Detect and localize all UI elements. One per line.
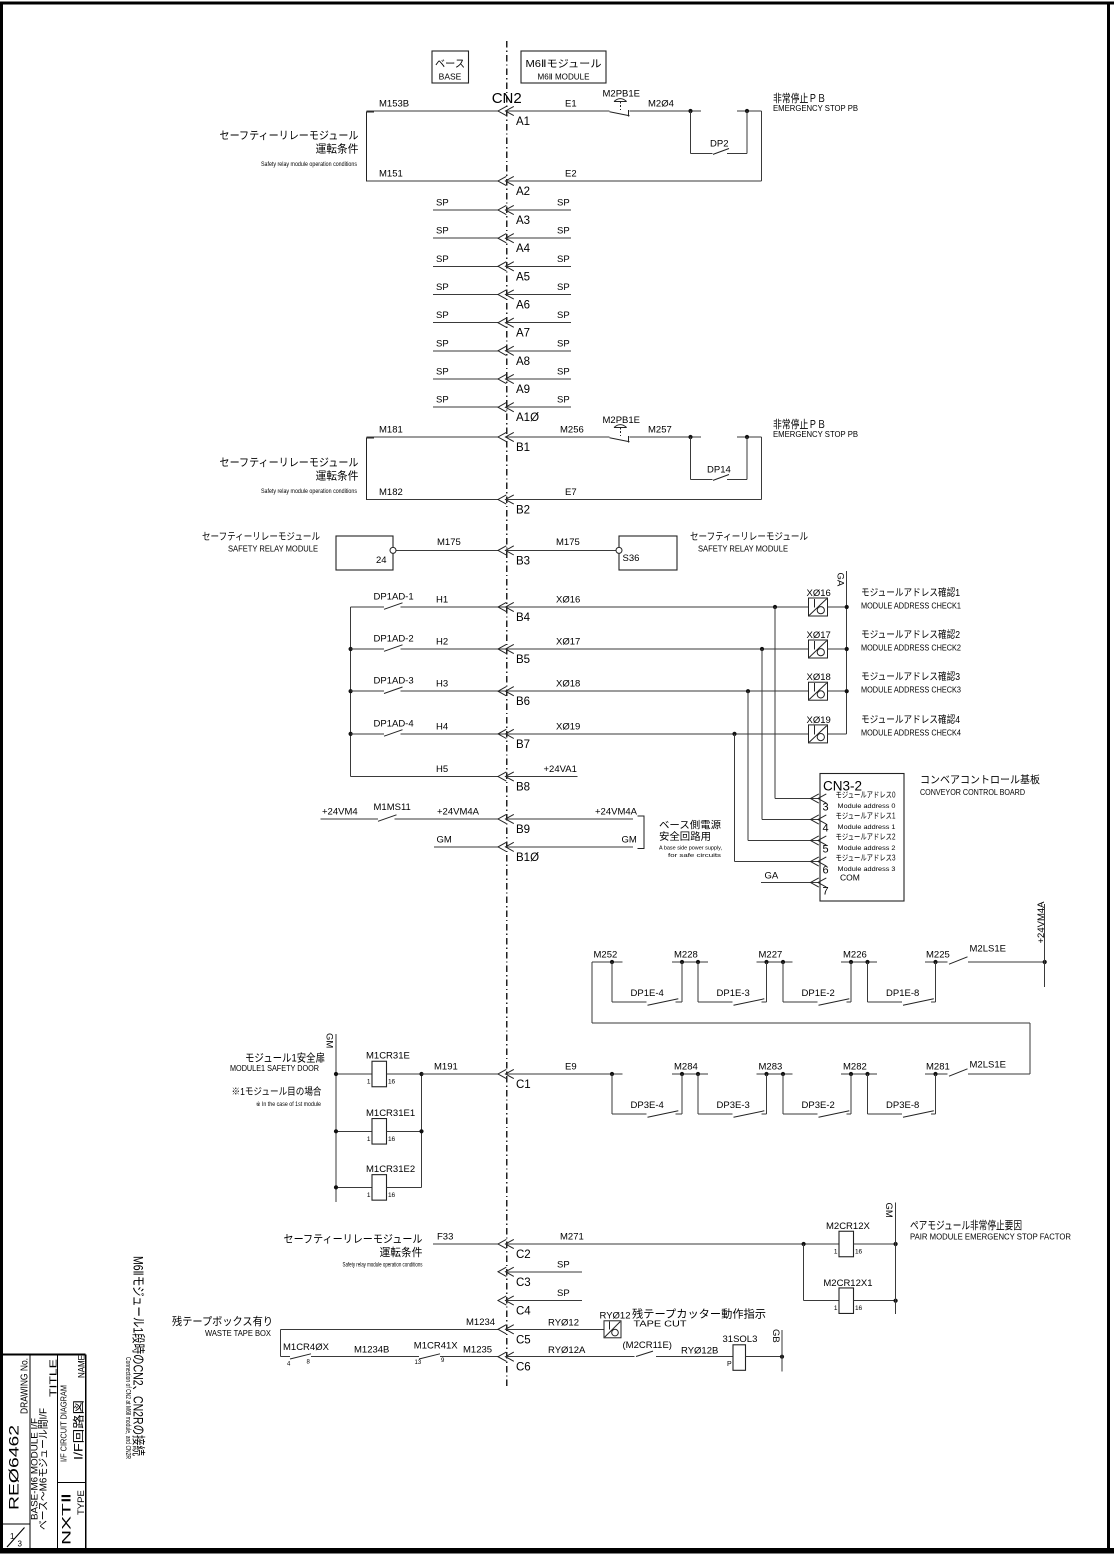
svg-text:M1CR31E: M1CR31E xyxy=(366,1051,410,1062)
svg-text:M2PB1E: M2PB1E xyxy=(603,89,641,100)
svg-text:B2: B2 xyxy=(516,505,530,517)
svg-text:M282: M282 xyxy=(843,1062,867,1073)
svg-text:SP: SP xyxy=(557,1288,570,1299)
svg-text:SP: SP xyxy=(436,395,449,406)
svg-text:Connection of CN2 at M6Ⅱ modul: Connection of CN2 at M6Ⅱ module, and CN2… xyxy=(124,1357,131,1459)
svg-text:H3: H3 xyxy=(436,679,448,690)
svg-text:13: 13 xyxy=(415,1360,422,1366)
svg-text:SP: SP xyxy=(436,367,449,378)
svg-text:XØ18: XØ18 xyxy=(807,672,831,683)
svg-text:GA: GA xyxy=(835,573,846,587)
svg-text:DP1AD-2: DP1AD-2 xyxy=(374,634,414,645)
svg-text:SP: SP xyxy=(557,395,570,406)
svg-text:P: P xyxy=(727,1361,732,1368)
svg-text:for safe circuits: for safe circuits xyxy=(668,853,721,859)
svg-text:M1CR31E2: M1CR31E2 xyxy=(366,1164,415,1175)
svg-text:A4: A4 xyxy=(516,243,531,255)
svg-text:TYPE: TYPE xyxy=(76,1490,87,1515)
svg-text:M271: M271 xyxy=(560,1232,584,1243)
svg-text:MODULE ADDRESS CHECK4: MODULE ADDRESS CHECK4 xyxy=(861,728,962,737)
svg-text:Module address 0: Module address 0 xyxy=(838,804,897,810)
svg-text:XØ19: XØ19 xyxy=(556,721,580,732)
svg-text:F33: F33 xyxy=(437,1232,453,1243)
svg-text:E1: E1 xyxy=(565,99,577,110)
svg-text:PAIR MODULE EMERGENCY STOP FAC: PAIR MODULE EMERGENCY STOP FACTOR xyxy=(910,1233,1071,1242)
svg-text:M6Ⅱ MODULE: M6Ⅱ MODULE xyxy=(538,72,590,82)
svg-text:16: 16 xyxy=(855,1249,863,1256)
svg-text:NXTⅡ: NXTⅡ xyxy=(60,1493,74,1545)
svg-text:運転条件: 運転条件 xyxy=(316,469,359,483)
svg-text:COM: COM xyxy=(840,873,860,883)
svg-text:GM: GM xyxy=(437,834,452,845)
svg-text:1: 1 xyxy=(367,1079,371,1086)
svg-text:M2CR12X1: M2CR12X1 xyxy=(823,1278,872,1289)
svg-text:M226: M226 xyxy=(843,950,867,961)
svg-text:1: 1 xyxy=(10,1532,15,1541)
svg-text:セーフティーリレーモジュール: セーフティーリレーモジュール xyxy=(220,129,359,142)
svg-text:1: 1 xyxy=(367,1192,371,1199)
svg-text:GM: GM xyxy=(324,1033,335,1048)
svg-text:I/F回路図: I/F回路図 xyxy=(72,1400,86,1460)
svg-text:H5: H5 xyxy=(436,764,448,775)
svg-text:24: 24 xyxy=(376,555,387,566)
svg-text:B1: B1 xyxy=(516,442,530,454)
svg-text:SP: SP xyxy=(436,226,449,237)
svg-text:DP3E-4: DP3E-4 xyxy=(631,1100,664,1111)
svg-text:C1: C1 xyxy=(516,1079,531,1091)
svg-text:GA: GA xyxy=(765,871,779,882)
svg-text:BASE-M6 MODULE I/F: BASE-M6 MODULE I/F xyxy=(30,1417,40,1520)
svg-text:16: 16 xyxy=(388,1136,396,1143)
svg-text:M182: M182 xyxy=(379,487,403,498)
svg-text:SP: SP xyxy=(557,254,570,265)
svg-text:M2LS1E: M2LS1E xyxy=(970,1059,1006,1070)
svg-text:SP: SP xyxy=(557,310,570,321)
svg-text:NAME: NAME xyxy=(77,1355,88,1378)
svg-text:RYØ12: RYØ12 xyxy=(600,1311,631,1322)
svg-text:M256: M256 xyxy=(560,425,584,436)
svg-text:C2: C2 xyxy=(516,1249,531,1261)
svg-text:Safety relay module operation: Safety relay module operation conditions xyxy=(343,1263,423,1269)
svg-text:ベース: ベース xyxy=(435,58,465,70)
svg-text:M1MS11: M1MS11 xyxy=(374,802,411,813)
svg-text:ベース側電源: ベース側電源 xyxy=(659,819,721,832)
svg-text:運転条件: 運転条件 xyxy=(380,1245,423,1259)
svg-text:E2: E2 xyxy=(565,169,577,180)
svg-text:XØ16: XØ16 xyxy=(807,588,831,599)
svg-text:※ In the case of 1st module: ※ In the case of 1st module xyxy=(256,1101,322,1108)
svg-text:4: 4 xyxy=(823,823,829,835)
svg-text:DP3E-3: DP3E-3 xyxy=(717,1100,750,1111)
svg-text:A2: A2 xyxy=(516,186,530,198)
svg-text:A3: A3 xyxy=(516,215,530,227)
svg-text:A5: A5 xyxy=(516,271,530,283)
svg-text:M175: M175 xyxy=(556,537,580,548)
svg-text:SP: SP xyxy=(557,282,570,293)
svg-text:非常停止ＰＢ: 非常停止ＰＢ xyxy=(773,417,826,431)
svg-text:+24VM4: +24VM4 xyxy=(322,807,358,818)
svg-text:DP14: DP14 xyxy=(707,465,731,476)
svg-text:SP: SP xyxy=(557,367,570,378)
svg-text:モジュールアドレス確認2: モジュールアドレス確認2 xyxy=(861,628,960,641)
svg-text:6: 6 xyxy=(823,865,829,877)
svg-text:3: 3 xyxy=(18,1540,23,1549)
svg-text:M1234B: M1234B xyxy=(354,1344,389,1355)
svg-text:TAPE CUT: TAPE CUT xyxy=(634,1320,687,1329)
svg-text:H4: H4 xyxy=(436,721,448,732)
svg-text:SP: SP xyxy=(557,1259,570,1270)
svg-text:M1CR4ØX: M1CR4ØX xyxy=(283,1342,330,1353)
svg-text:RYØ12B: RYØ12B xyxy=(681,1346,718,1357)
svg-text:モジュールアドレス2: モジュールアドレス2 xyxy=(836,833,896,842)
svg-text:DP1E-4: DP1E-4 xyxy=(631,988,664,999)
svg-text:B5: B5 xyxy=(516,654,530,666)
svg-text:+24VM4A: +24VM4A xyxy=(437,807,480,818)
svg-text:M1CR31E1: M1CR31E1 xyxy=(366,1108,415,1119)
svg-text:16: 16 xyxy=(388,1079,396,1086)
svg-text:XØ17: XØ17 xyxy=(807,630,831,641)
svg-text:1: 1 xyxy=(834,1305,838,1312)
svg-text:SP: SP xyxy=(557,226,570,237)
svg-text:A8: A8 xyxy=(516,356,530,368)
svg-text:+24VA1: +24VA1 xyxy=(544,764,577,775)
svg-text:XØ17: XØ17 xyxy=(556,637,580,648)
svg-text:セーフティーリレーモジュール: セーフティーリレーモジュール xyxy=(220,456,359,469)
svg-text:C5: C5 xyxy=(516,1334,531,1346)
svg-text:セーフティーリレーモジュール: セーフティーリレーモジュール xyxy=(202,531,320,543)
svg-text:M153B: M153B xyxy=(379,99,409,110)
svg-text:A6: A6 xyxy=(516,300,530,312)
svg-text:SP: SP xyxy=(436,282,449,293)
svg-text:C3: C3 xyxy=(516,1277,531,1289)
svg-text:DP1AD-1: DP1AD-1 xyxy=(374,592,414,603)
svg-text:RYØ12A: RYØ12A xyxy=(548,1345,586,1356)
svg-text:31SOL3: 31SOL3 xyxy=(723,1334,758,1345)
svg-text:MODULE ADDRESS CHECK3: MODULE ADDRESS CHECK3 xyxy=(861,686,962,695)
svg-text:M1235: M1235 xyxy=(463,1344,492,1355)
svg-text:M257: M257 xyxy=(648,425,672,436)
svg-text:M227: M227 xyxy=(759,950,783,961)
svg-text:運転条件: 運転条件 xyxy=(316,142,359,156)
svg-text:B9: B9 xyxy=(516,824,530,836)
svg-text:A1: A1 xyxy=(516,116,530,128)
svg-text:B6: B6 xyxy=(516,696,530,708)
svg-text:セーフティーリレーモジュール: セーフティーリレーモジュール xyxy=(690,531,808,543)
svg-text:M1CR41X: M1CR41X xyxy=(414,1341,458,1352)
svg-text:1: 1 xyxy=(367,1136,371,1143)
svg-text:A base side power supply,: A base side power supply, xyxy=(659,846,722,852)
svg-text:SP: SP xyxy=(557,338,570,349)
svg-text:DP1E-3: DP1E-3 xyxy=(717,988,750,999)
svg-text:モジュールアドレス確認1: モジュールアドレス確認1 xyxy=(861,586,960,599)
svg-text:A9: A9 xyxy=(516,384,530,396)
svg-text:RYØ12: RYØ12 xyxy=(548,1318,579,1329)
svg-text:モジュールアドレス0: モジュールアドレス0 xyxy=(836,791,896,800)
svg-text:M1234: M1234 xyxy=(466,1317,495,1328)
svg-text:DP1AD-4: DP1AD-4 xyxy=(374,718,414,729)
svg-text:XØ18: XØ18 xyxy=(556,679,580,690)
svg-text:残テープカッター動作指示: 残テープカッター動作指示 xyxy=(632,1307,766,1321)
svg-text:DP3E-2: DP3E-2 xyxy=(802,1100,835,1111)
svg-text:M283: M283 xyxy=(759,1062,783,1073)
svg-text:DRAWING No.: DRAWING No. xyxy=(20,1358,31,1414)
svg-text:安全回路用: 安全回路用 xyxy=(659,830,711,843)
svg-text:M252: M252 xyxy=(594,950,618,961)
svg-text:M181: M181 xyxy=(379,425,403,436)
svg-text:※1モジュール目の場合: ※1モジュール目の場合 xyxy=(232,1085,322,1098)
svg-text:コンベアコントロール基板: コンベアコントロール基板 xyxy=(920,773,1040,786)
svg-text:M2PB1E: M2PB1E xyxy=(603,415,641,426)
svg-text:GM: GM xyxy=(622,834,637,845)
svg-text:C6: C6 xyxy=(516,1362,531,1374)
svg-text:XØ19: XØ19 xyxy=(807,715,831,726)
svg-text:非常停止ＰＢ: 非常停止ＰＢ xyxy=(773,91,826,105)
svg-text:MODULE ADDRESS CHECK2: MODULE ADDRESS CHECK2 xyxy=(861,644,962,653)
svg-text:M2LS1E: M2LS1E xyxy=(970,944,1006,955)
svg-text:M2CR12X: M2CR12X xyxy=(826,1221,870,1232)
svg-text:SAFETY RELAY MODULE: SAFETY RELAY MODULE xyxy=(698,545,788,554)
svg-text:MODULE1 SAFETY DOOR: MODULE1 SAFETY DOOR xyxy=(230,1064,319,1073)
svg-text:セーフティーリレーモジュール: セーフティーリレーモジュール xyxy=(284,1233,423,1246)
svg-text:DP2: DP2 xyxy=(710,139,728,150)
svg-text:(M2CR11E): (M2CR11E) xyxy=(623,1340,672,1351)
svg-text:モジュール1安全扉: モジュール1安全扉 xyxy=(245,1051,325,1065)
svg-text:3: 3 xyxy=(823,802,829,814)
svg-text:モジュールアドレス確認3: モジュールアドレス確認3 xyxy=(861,670,960,683)
svg-text:モジュールアドレス3: モジュールアドレス3 xyxy=(836,854,896,863)
svg-text:B7: B7 xyxy=(516,739,530,751)
svg-text:Safety relay module operation: Safety relay module operation conditions xyxy=(261,489,357,495)
svg-text:B8: B8 xyxy=(516,782,530,794)
svg-text:EMERGENCY STOP PB: EMERGENCY STOP PB xyxy=(773,104,858,113)
svg-text:BASE: BASE xyxy=(439,72,462,82)
svg-text:M6Ⅱモジュール: M6Ⅱモジュール xyxy=(526,58,602,70)
svg-text:E7: E7 xyxy=(565,487,577,498)
svg-text:SAFETY RELAY MODULE: SAFETY RELAY MODULE xyxy=(228,545,318,554)
svg-text:B1Ø: B1Ø xyxy=(516,852,539,864)
svg-text:A1Ø: A1Ø xyxy=(516,412,539,424)
svg-text:SP: SP xyxy=(436,338,449,349)
svg-text:7: 7 xyxy=(823,886,829,898)
svg-text:B4: B4 xyxy=(516,612,531,624)
svg-text:モジュールアドレス確認4: モジュールアドレス確認4 xyxy=(861,713,960,726)
svg-text:DP3E-8: DP3E-8 xyxy=(886,1100,919,1111)
svg-text:CONVEYOR CONTROL BOARD: CONVEYOR CONTROL BOARD xyxy=(920,788,1025,797)
svg-text:+24VM4A: +24VM4A xyxy=(1036,901,1047,944)
svg-text:M228: M228 xyxy=(674,950,698,961)
svg-text:DP1AD-3: DP1AD-3 xyxy=(374,676,414,687)
svg-text:XØ16: XØ16 xyxy=(556,595,580,606)
svg-text:H2: H2 xyxy=(436,637,448,648)
svg-text:M151: M151 xyxy=(379,169,403,180)
svg-text:SP: SP xyxy=(436,254,449,265)
svg-text:M6Ⅱモジュール1段時のCN2、CN2Rの接続: M6Ⅱモジュール1段時のCN2、CN2Rの接続 xyxy=(131,1256,147,1456)
svg-text:残テープボックス有り: 残テープボックス有り xyxy=(172,1314,273,1328)
svg-text:1: 1 xyxy=(834,1249,838,1256)
svg-text:モジュールアドレス1: モジュールアドレス1 xyxy=(836,812,896,821)
svg-text:M284: M284 xyxy=(674,1062,698,1073)
svg-text:5: 5 xyxy=(823,844,829,856)
svg-text:WASTE TAPE BOX: WASTE TAPE BOX xyxy=(205,1329,272,1338)
svg-text:16: 16 xyxy=(388,1192,396,1199)
svg-text:H1: H1 xyxy=(436,595,448,606)
svg-text:A7: A7 xyxy=(516,328,530,340)
svg-text:Module address 2: Module address 2 xyxy=(838,846,897,852)
svg-text:REØ6462: REØ6462 xyxy=(6,1425,22,1510)
svg-text:C4: C4 xyxy=(516,1306,531,1318)
svg-text:I/F CIRCUIT DIAGRAM: I/F CIRCUIT DIAGRAM xyxy=(59,1385,69,1462)
svg-text:M2Ø4: M2Ø4 xyxy=(648,99,674,110)
svg-text:ペアモジュール非常停止要因: ペアモジュール非常停止要因 xyxy=(910,1218,1022,1232)
svg-text:M175: M175 xyxy=(437,537,461,548)
svg-text:DP1E-8: DP1E-8 xyxy=(886,988,919,999)
svg-text:M225: M225 xyxy=(926,950,950,961)
svg-text:CN2: CN2 xyxy=(492,90,522,107)
svg-text:S36: S36 xyxy=(623,553,640,564)
svg-text:MODULE ADDRESS CHECK1: MODULE ADDRESS CHECK1 xyxy=(861,602,962,611)
svg-text:16: 16 xyxy=(855,1305,863,1312)
svg-text:+24VM4A: +24VM4A xyxy=(595,807,638,818)
svg-text:Safety relay module operation: Safety relay module operation conditions xyxy=(261,162,357,168)
svg-text:DP1E-2: DP1E-2 xyxy=(802,988,835,999)
svg-text:GB: GB xyxy=(770,1329,781,1343)
svg-text:EMERGENCY STOP PB: EMERGENCY STOP PB xyxy=(773,430,858,439)
svg-text:Module address 1: Module address 1 xyxy=(838,825,897,831)
svg-text:GM: GM xyxy=(883,1203,894,1218)
svg-text:SP: SP xyxy=(436,198,449,209)
svg-text:SP: SP xyxy=(557,198,570,209)
svg-text:B3: B3 xyxy=(516,555,530,567)
svg-text:M281: M281 xyxy=(926,1062,950,1073)
svg-text:M191: M191 xyxy=(434,1062,458,1073)
svg-text:SP: SP xyxy=(436,310,449,321)
svg-text:E9: E9 xyxy=(565,1062,577,1073)
